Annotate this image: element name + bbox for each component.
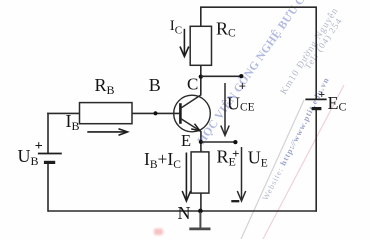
resistor RE — [191, 152, 209, 193]
battery UB plates — [38, 154, 62, 163]
node B — [153, 111, 157, 115]
wire: E node to UE tap — [201, 141, 236, 143]
svg-text:EC: EC — [328, 93, 347, 114]
svg-text:IB+IC: IB+IC — [144, 149, 181, 171]
wire: right rail lower (EC battery to bottom) — [315, 109, 317, 212]
svg-text:+: + — [35, 139, 43, 154]
watermark red smudge — [154, 229, 163, 236]
svg-text:+: + — [232, 146, 239, 161]
watermark pink diagonal line — [263, 85, 344, 239]
current arrow IC — [180, 29, 189, 57]
current arrow IB+IC — [182, 153, 190, 202]
svg-text:UCE: UCE — [227, 93, 255, 113]
ground — [189, 212, 210, 229]
wire: left to RB — [47, 112, 79, 114]
watermark address line Km10 — [278, 6, 341, 97]
svg-text:C: C — [187, 75, 198, 94]
svg-text:+: + — [319, 89, 326, 101]
svg-text:B: B — [149, 75, 161, 95]
label UE minus — [231, 200, 239, 202]
wire: emitter vertical — [200, 131, 202, 152]
node N — [198, 209, 203, 214]
svg-text:RB: RB — [95, 75, 115, 97]
battery EC plates — [305, 99, 326, 108]
svg-text:E: E — [181, 131, 191, 150]
watermark script letters near RE — [190, 147, 213, 170]
svg-text:N: N — [178, 203, 191, 223]
svg-text:IC: IC — [170, 18, 182, 37]
watermark big text HOC VIEN CONG NGHE BUU — [194, 0, 326, 147]
svg-text:+: + — [239, 79, 246, 94]
svg-text:IB: IB — [66, 111, 80, 133]
wire: top rail to RC — [200, 6, 202, 26]
wire: right rail upper (top to EC battery) — [315, 6, 317, 99]
node C — [199, 74, 203, 78]
wire: left rail lower (UB battery to bottom) — [47, 162, 49, 211]
watermark tel line — [302, 16, 344, 71]
node E — [199, 140, 203, 144]
watermark website line — [261, 76, 331, 202]
transistor Q1 — [174, 95, 211, 132]
resistor RC — [190, 26, 211, 65]
voltage arrow UE — [237, 147, 245, 201]
wire: C node to UCE tap — [201, 75, 242, 77]
watermark gray diagonal line — [241, 100, 304, 239]
wire: RB to transistor base — [132, 112, 180, 114]
wire: left rail upper (RB level to UB battery) — [47, 113, 49, 154]
wire: collector vertical — [200, 65, 202, 95]
current arrow IB — [87, 129, 127, 136]
resistor RB — [80, 103, 133, 124]
node UCE top tap — [239, 74, 243, 78]
wire: top rail — [201, 6, 316, 8]
svg-text:UE: UE — [248, 148, 268, 170]
voltage arrow UCE — [221, 83, 229, 136]
wire: RE to N — [200, 193, 202, 211]
wire: bottom rail — [48, 210, 317, 212]
svg-text:RC: RC — [216, 19, 236, 40]
node UE top tap — [233, 140, 237, 144]
